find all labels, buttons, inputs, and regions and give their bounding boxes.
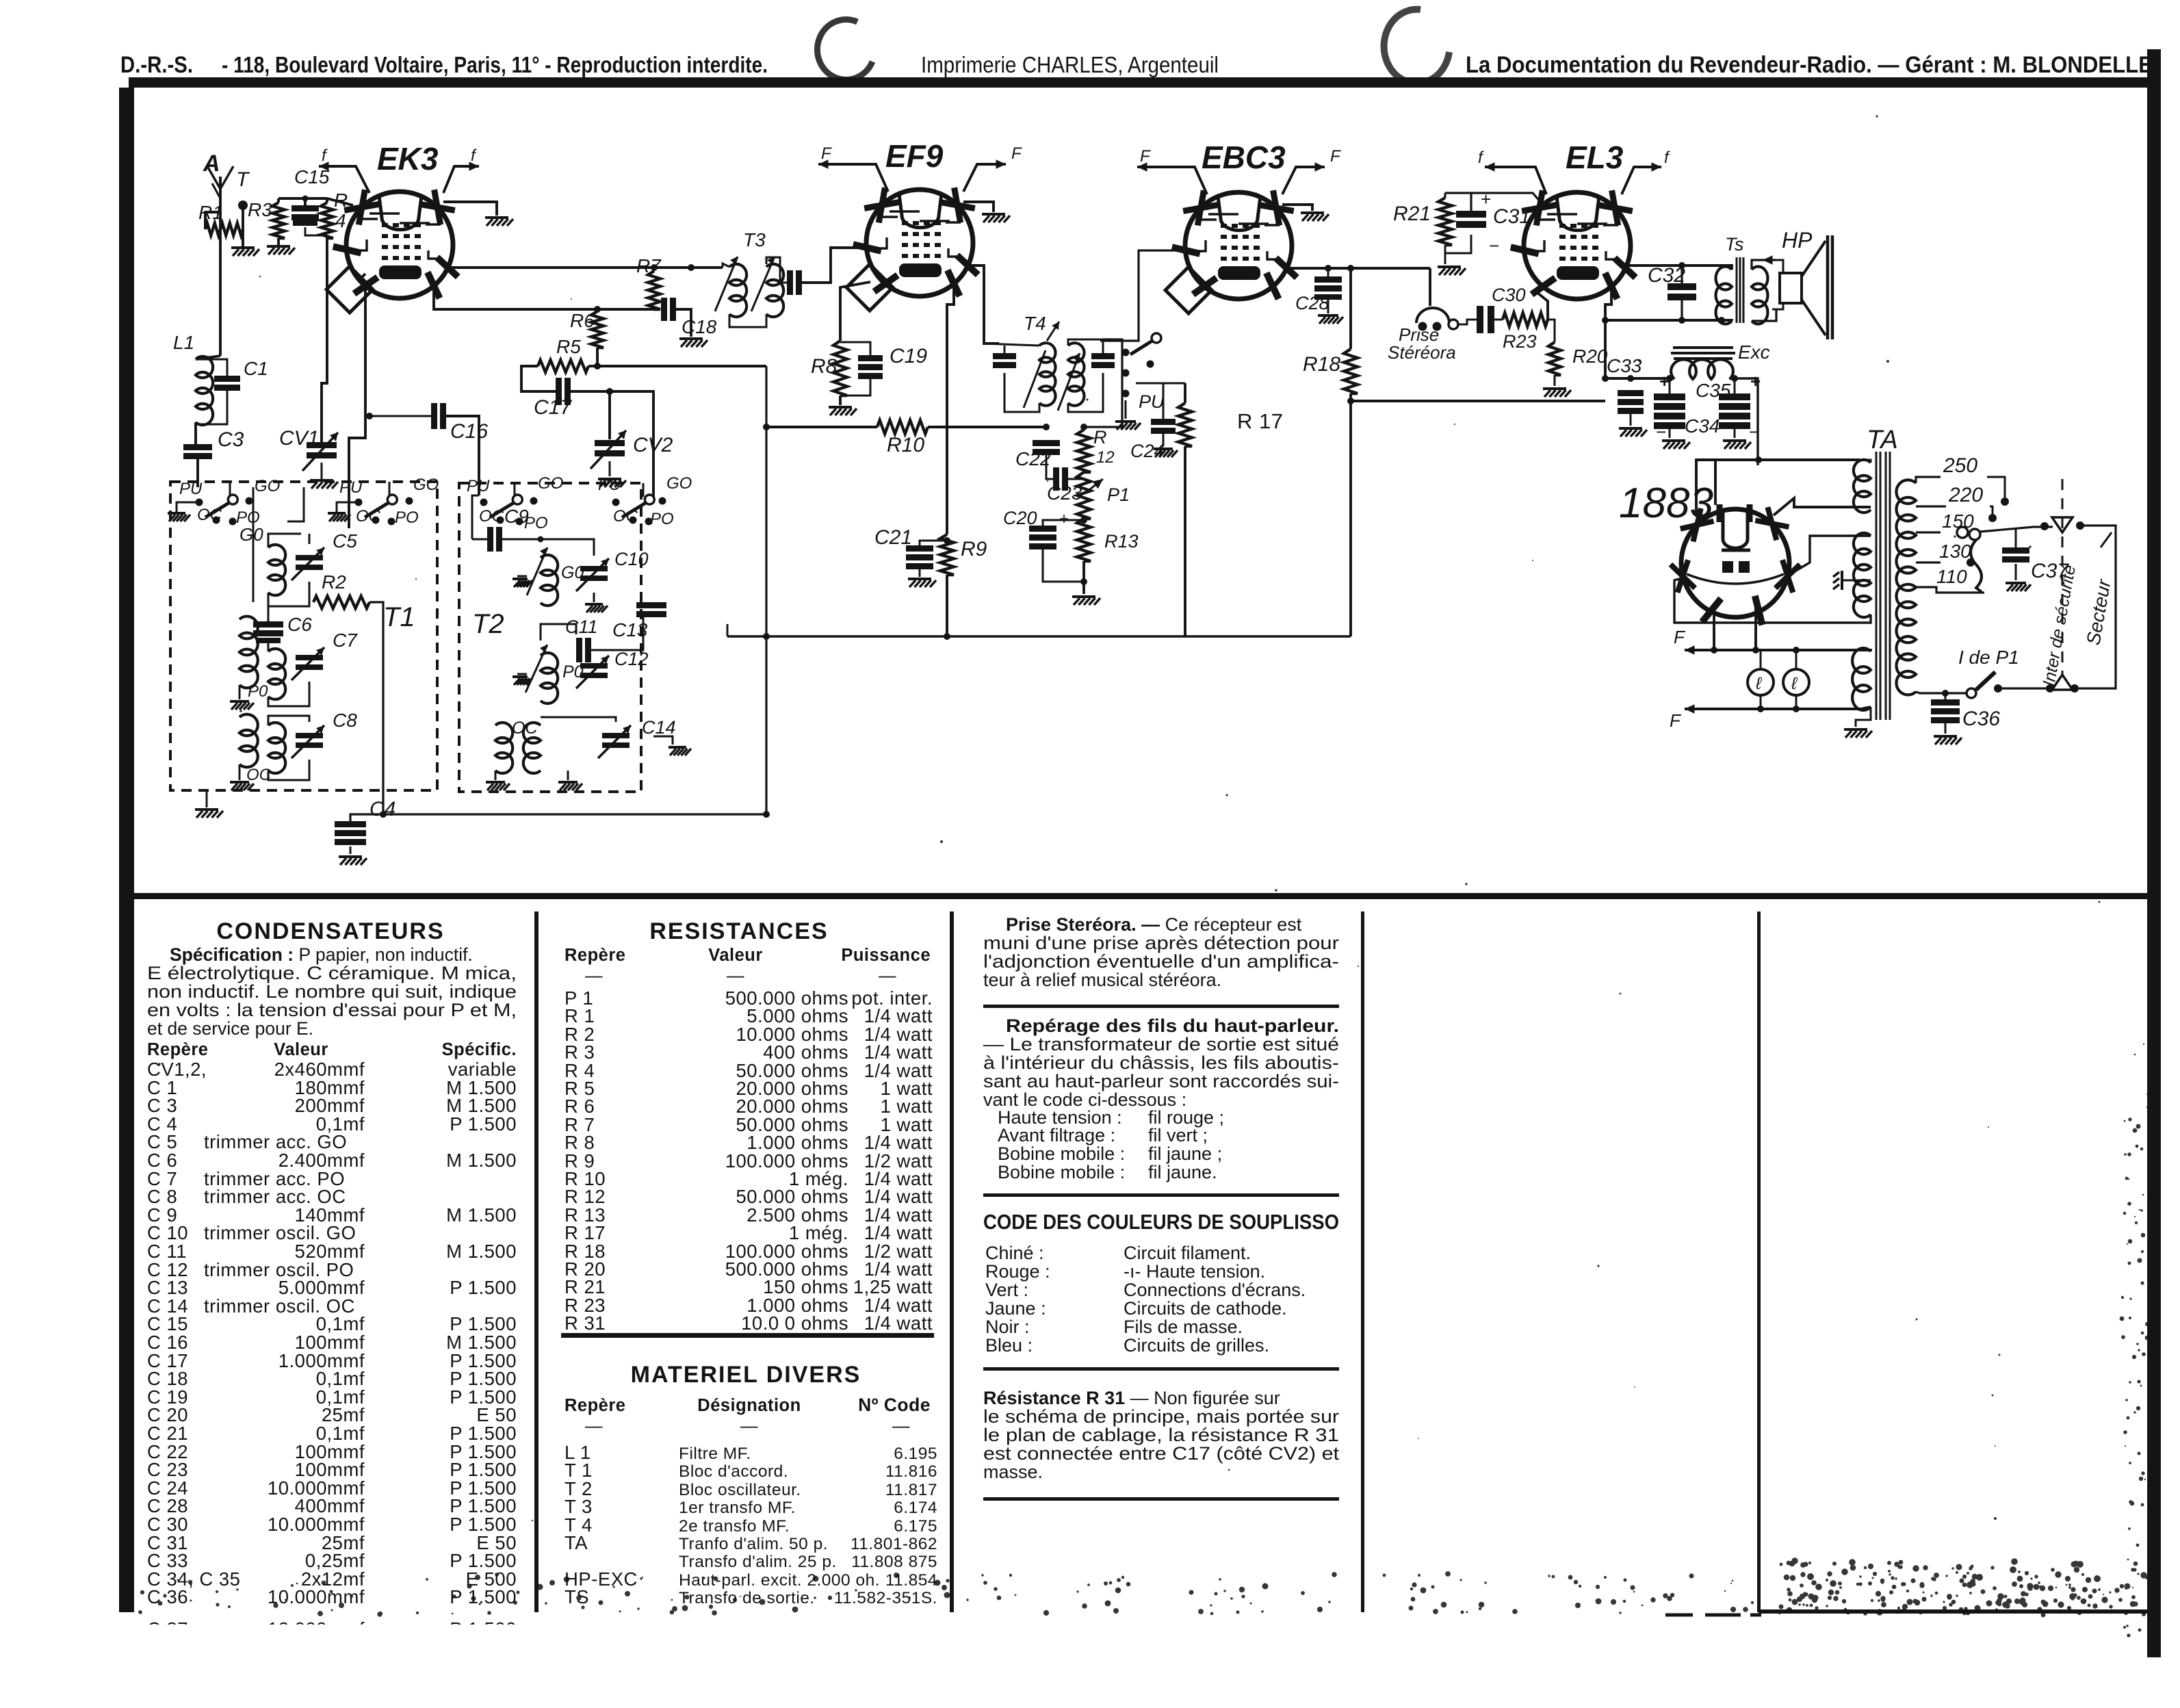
svg-text:C8: C8 [333,710,357,731]
ground under C34 [1669,429,1671,438]
ground right of EBC3 [1301,211,1324,214]
svg-text:PU: PU [467,477,490,495]
svg-text:F: F [1674,627,1686,647]
ground under C18 [679,337,703,340]
svg-text:PO: PO [650,510,674,528]
resistor R2 [313,596,369,608]
svg-text:CONDENSATEURS: CONDENSATEURS [216,918,444,944]
svg-text:Circuits de cathode.: Circuits de cathode. [1124,1298,1287,1319]
column separator 2 [950,911,954,1612]
transformer Ts secondary [1752,266,1767,324]
svg-text:C7: C7 [333,630,358,651]
svg-text:—: — [585,1416,603,1436]
wire T1 vertical feeds [252,487,255,602]
capacitor C20 [1029,526,1056,532]
prise stereora connector [1429,268,1431,306]
svg-text:Circuits de grilles.: Circuits de grilles. [1124,1335,1269,1356]
svg-text:C33: C33 [1607,355,1642,376]
ground under T [231,246,255,249]
svg-text:Imprimerie CHARLES, Argenteuil: Imprimerie CHARLES, Argenteuil [921,52,1219,77]
rule after prise stereora [983,1005,1339,1008]
wire R1 to T [242,228,244,231]
svg-text:C11: C11 [565,617,598,637]
svg-text:Bobine mobile :: Bobine mobile : [998,1143,1125,1164]
svg-text:M 1.500: M 1.500 [446,1241,517,1262]
svg-text:Tranfo d'alim. 50 p.: Tranfo d'alim. 50 p. [679,1535,828,1553]
svg-text:Rouge :: Rouge : [985,1261,1050,1282]
svg-text:sant au haut-parleur sont racc: sant au haut-parleur sont raccordés sui- [983,1071,1339,1091]
svg-text:Spécification : P papier, non: Spécification : P papier, non inductif. [170,944,473,965]
svg-text:—: — [727,966,744,985]
resistor R9 [940,534,954,575]
coil GO T1 [268,545,285,595]
TA tap 130 [1916,561,1941,563]
pickup selector PU [1122,349,1130,357]
wire L1 to C3 [194,422,197,444]
transformer Ts core [1737,257,1743,323]
capacitor C32 [1668,283,1696,290]
ground PO coil [239,685,241,699]
TA tap 250 [1916,477,1941,483]
dashed inter line [2062,479,2064,676]
svg-text:RESISTANCES: RESISTANCES [649,918,828,944]
svg-text:C28: C28 [1295,293,1329,313]
resistor R18 [1344,349,1358,393]
wire C4 node to bus [383,813,766,815]
TA tap 220 [1916,505,1946,507]
svg-text:—: — [740,1416,758,1436]
svg-text:−: − [1656,422,1667,442]
wire EBC3 left pin to T4 zone [1100,250,1186,341]
svg-text:C14: C14 [642,717,676,738]
svg-text:11.808 875: 11.808 875 [851,1553,937,1571]
svg-text:E électrolytique. C céramique.: E électrolytique. C céramique. M mica, [147,963,517,983]
tube EBC3 [1172,190,1297,299]
svg-text:EBC3: EBC3 [1202,140,1286,175]
svg-text:C19: C19 [890,345,927,367]
svg-text:R18: R18 [1303,353,1340,376]
capacitor C23 [1053,467,1059,491]
capacitor C9 [487,527,493,552]
grounds below T2 [495,771,497,780]
schematic bottom rule [134,893,2147,899]
wire R13 to ground [1082,561,1085,594]
svg-text:11.801-862: 11.801-862 [851,1535,937,1553]
svg-text:C 36: C 36 [147,1586,188,1607]
svg-text:Nº Code: Nº Code [858,1395,931,1415]
wire R4 down to CV1 and C16 [322,235,327,442]
svg-text:L1: L1 [173,332,194,353]
svg-text:R3: R3 [248,199,272,220]
svg-text:P 1.500: P 1.500 [450,1586,517,1607]
svg-text:PU: PU [179,480,203,498]
wire EK3 bottom to oscillator [349,286,365,528]
svg-text:Valeur: Valeur [274,1040,328,1059]
svg-text:−: − [1749,422,1760,442]
ground under CV2 [609,461,611,476]
svg-text:−: − [1489,235,1500,256]
right page border [2147,49,2161,1657]
wire C22 C23 [1046,454,1053,479]
svg-text:Connections d'écrans.: Connections d'écrans. [1124,1280,1306,1300]
block T1 dashed box [170,482,437,790]
svg-text:R10: R10 [887,434,924,456]
svg-text:C15: C15 [294,166,330,187]
svg-text:EF9: EF9 [885,138,944,174]
tube EK3 [333,190,458,298]
resistor R13 [1077,519,1091,561]
svg-text:Bleu :: Bleu : [985,1335,1033,1356]
svg-text:Bloc oscillateur.: Bloc oscillateur. [679,1481,801,1499]
svg-text:10.0 0 ohms: 10.0 0 ohms [741,1312,848,1334]
TA tap 150 [1916,531,1941,533]
capacitor C28 [1314,276,1342,283]
svg-text:I de P1: I de P1 [1958,647,2019,668]
header rule [129,77,2158,88]
capacitor C31 [1456,211,1486,218]
svg-text:HP: HP [1782,228,1813,253]
wire EL3 anode to Ts [1625,266,1732,270]
svg-text:C20: C20 [1003,508,1037,528]
TA secondary winding [1896,480,1916,695]
column separator 3 [1361,911,1364,1612]
wire EF9 to ground right [963,202,994,212]
svg-text:Prise Steréora. — Ce récepteur: Prise Steréora. — Ce récepteur est [1006,914,1302,935]
svg-text:C32: C32 [1648,264,1685,287]
capacitor C16 [431,403,437,429]
wire T3 to EF9 grid [802,248,868,283]
svg-text:EL3: EL3 [1566,140,1624,175]
wire secteur right side [2079,526,2116,688]
ground stub PO T2 [517,673,527,675]
wire C18 to ground [676,309,691,337]
svg-text:R: R [1093,427,1107,448]
svg-text:C10: C10 [614,549,649,569]
oscillator coil GO T2 [541,555,558,606]
ground under C35 [1734,429,1736,438]
capacitor C37 [2002,547,2029,554]
wire R6 to R5 [596,348,599,366]
svg-text:-ı- Haute tension.: -ı- Haute tension. [1124,1261,1265,1282]
svg-text:C12: C12 [614,649,649,669]
svg-text:GO: GO [413,476,439,494]
resistor R8 [833,341,847,396]
svg-text:R5: R5 [556,336,581,357]
svg-text:F: F [821,144,832,163]
column separator 4 [1757,911,1761,1612]
wire T3 tops [723,263,729,268]
svg-text:+: + [1750,371,1761,391]
svg-text:T1: T1 [383,602,415,632]
svg-text:Ts: Ts [1725,234,1744,255]
svg-text:F: F [1670,710,1682,731]
wire 1883 anode bus top [1696,460,1860,517]
svg-text:11.816: 11.816 [885,1462,937,1481]
wire EF9 bottom pin down to R9 [947,286,954,534]
svg-text:11.817: 11.817 [885,1481,937,1499]
inductor L1 [196,357,213,425]
resistances underline [561,1333,934,1338]
rule after reperage [983,1193,1339,1197]
svg-text:Spécific.: Spécific. [442,1040,517,1059]
svg-text:C5: C5 [333,530,357,552]
svg-text:MATERIEL DIVERS: MATERIEL DIVERS [631,1362,861,1388]
wire R8 top to EF9 [840,282,870,311]
svg-text:fil vert ;: fil vert ; [1148,1125,1208,1146]
wire R10 left to T2 line [766,426,877,428]
svg-text:muni d'une prise après détecti: muni d'une prise après détection pour [983,933,1339,953]
svg-text:l'adjonction éventuelle d'un a: l'adjonction éventuelle d'un amplifica- [983,951,1339,972]
node wire R3 C15 R4 top [278,197,327,200]
filament wires F [1685,649,1702,651]
wire antenna down to L1 [219,212,222,356]
left page border [119,88,134,1612]
svg-text:Repère: Repère [565,1396,625,1415]
capacitor C22 [1033,440,1060,446]
trimmer C10 [580,566,608,571]
svg-text:Avant filtrage :: Avant filtrage : [998,1125,1115,1146]
svg-text:Stéréora: Stéréora [1388,342,1456,363]
wire R18 bottom bus [1349,393,1352,636]
svg-text:Repère: Repère [147,1040,208,1059]
selector squiggle [1971,540,1982,592]
grid-cap diamond EK3 [326,266,373,313]
resistor R5 [538,360,588,372]
svg-text:le plan de cablage, la résista: le plan de cablage, la résistance R 31 [983,1425,1339,1445]
svg-text:130: 130 [1939,541,1971,562]
wire Exc right down to TA [1729,378,1758,465]
resistor R1 [205,223,243,235]
svg-text:R6: R6 [570,310,595,331]
svg-text:Exc: Exc [1738,341,1770,363]
TA mid winding ground tap [1843,580,1871,582]
wire grid line to EK3 [327,198,353,205]
svg-text:6.174: 6.174 [894,1499,937,1517]
wires T4 [984,344,1039,346]
tube EL3 [1511,190,1636,299]
svg-text:12: 12 [1096,448,1115,467]
wire R5 left to C17 [521,366,556,391]
svg-text:OC: OC [512,719,538,738]
svg-text:Résistance R 31 — Non figur: Résistance R 31 — Non figurée sur [983,1388,1280,1408]
wire R9 to bus [946,575,948,636]
svg-text:Désignation: Désignation [697,1396,801,1415]
svg-text:C21: C21 [874,526,912,549]
ground under C21 [919,569,921,577]
wire TA mid bottom under 1883 [1674,578,1871,623]
svg-text:Transfo d'alim. 25 p.: Transfo d'alim. 25 p. [679,1553,837,1571]
ground under R8 [839,396,842,405]
capacitor C33 [1618,390,1644,396]
svg-text:et de service pour E.: et de service pour E. [147,1018,313,1039]
bottom right rule [1759,1609,2147,1614]
wire R21 C31 top to EL3 grid [1445,193,1471,211]
capacitor C6 [253,621,283,627]
svg-text:—: — [892,1416,910,1436]
svg-text:R20: R20 [1572,346,1608,367]
svg-text:110: 110 [1936,566,1967,587]
block T2 dashed box [459,483,641,792]
svg-text:— Le transformateur de sortie: — Le transformateur de sortie est situé [983,1034,1339,1054]
svg-text:TA: TA [565,1532,588,1553]
svg-text:P 1.500: P 1.500 [450,1113,517,1135]
wire EL3 cathode down to C33 Exc [1605,320,1674,378]
svg-text:GO: GO [538,474,563,493]
resistor R21 [1438,198,1452,245]
svg-text:6.195: 6.195 [894,1445,937,1463]
ground under C10 [593,593,595,602]
wire R5 junction to MF line [597,365,766,367]
svg-text:Valeur: Valeur [708,946,763,965]
svg-text:GO: GO [255,477,280,495]
table condensateurs cut row [147,1618,517,1640]
wire R18 to EL3 cathode bus [1351,400,1605,402]
tube 1883 [1670,504,1800,625]
capacitor C36 [1931,699,1960,706]
svg-text:C31: C31 [1493,205,1531,228]
resistor R17 [1178,403,1192,446]
svg-text:C9: C9 [504,506,529,527]
trimmer C14 [602,733,630,738]
ground under R21 [1444,253,1446,264]
capacitor C24 [1151,419,1176,425]
ground under C37 [2015,564,2017,580]
wire EL3 cathode bus lower [1605,289,1732,321]
wire C3 down to T1 [196,459,199,487]
svg-text:M 1.500: M 1.500 [446,1150,517,1171]
svg-text:2e transfo MF.: 2e transfo MF. [679,1517,790,1536]
coil OC T1 secondary [268,723,285,773]
svg-text:Circuit filament.: Circuit filament. [1124,1243,1251,1263]
oscillator coil PO T2 [541,653,558,703]
svg-text:R 17: R 17 [1237,409,1283,433]
svg-text:G0: G0 [239,524,263,545]
tube EF9 [853,187,978,296]
svg-text:C6: C6 [287,614,312,635]
wire T2 risers [472,495,479,539]
svg-text:C30: C30 [1492,285,1526,305]
choke Exc coil [1671,359,1733,379]
resistor R4 [321,203,333,238]
svg-text:C17: C17 [534,396,572,419]
choke Exc laminations [1671,348,1735,359]
wire EBC3 to ground right [1282,205,1312,211]
svg-text:Bobine mobile :: Bobine mobile : [998,1162,1125,1182]
svg-text:R 31: R 31 [565,1312,606,1334]
wire R23 to EL3 grid [1537,293,1548,320]
filament arrows EBC3 [1137,166,1158,168]
capacitor C4 [350,814,383,821]
transformer Ts primary [1716,266,1732,324]
svg-text:PU: PU [339,478,363,497]
svg-text:La Documentation du Revendeur-: La Documentation du Revendeur-Radio. — G… [1466,52,2153,78]
svg-text:T4: T4 [1024,313,1046,334]
svg-text:1er transfo MF.: 1er transfo MF. [679,1499,796,1517]
svg-text:Vert :: Vert : [985,1280,1028,1300]
wire EK3 anode to T3 [447,266,723,269]
capacitor C3 [183,444,212,450]
wire C17 right to CV2 and T2 [571,391,610,439]
svg-text:10.000mmf: 10.000mmf [268,1586,365,1607]
wire R21 C31 bottom [1445,235,1471,253]
wire C16 left [369,415,431,417]
filament arrows EL3 [1485,166,1504,168]
capacitor C1 [214,376,240,382]
rule after R31 note [983,1497,1339,1501]
ground under C33 [1630,414,1632,426]
svg-text:R13: R13 [1104,531,1139,552]
capacitor C15 [291,205,319,211]
svg-text:R23: R23 [1503,331,1537,352]
dial lamps [1760,650,1762,669]
resistor R12 [1077,430,1091,472]
filament arrows EF9 [818,163,839,165]
svg-text:M 1.500: M 1.500 [446,1204,517,1226]
svg-text:à l'intérieur du châssis, les: à l'intérieur du châssis, les fils about… [983,1052,1339,1073]
wire selector output [1980,527,2053,532]
ground stub GO T2 [517,575,527,578]
capacitor T3 grid [787,270,793,295]
svg-text:11.854: 11.854 [885,1571,937,1590]
TA tap 110 [1916,587,1984,593]
svg-text:Transfo de sortie.: Transfo de sortie. [679,1589,815,1607]
svg-text:- 118, Boulevard Voltaire, Par: - 118, Boulevard Voltaire, Paris, 11° - … [222,52,768,77]
triangle top secteur [2052,517,2073,532]
svg-text:250: 250 [1943,454,1977,477]
transformer TA core [1876,452,1890,720]
svg-text:R2: R2 [322,571,346,593]
rule after code couleurs [983,1367,1339,1371]
wire grid node EBC3 [1136,383,1185,385]
capacitor C19 [858,355,883,361]
svg-text:GO: GO [666,474,692,493]
antenna A [219,177,222,212]
ground under C4 [350,846,352,854]
svg-text:est connectée entre C17 (côté: est connectée entre C17 (côté CV2) et [983,1443,1340,1464]
svg-text:PU: PU [1139,391,1165,412]
TA filament winding 1883 [1852,648,1871,710]
svg-text:CV2: CV2 [633,434,673,456]
ground under CV1 [321,463,323,479]
variable capacitor CV1 [307,442,337,448]
svg-text:220: 220 [1948,484,1983,506]
resistor R3 [272,203,285,238]
svg-text:F: F [1011,144,1022,163]
capacitor C35 electrolytic [1719,393,1750,400]
svg-text:ℓ: ℓ [1791,674,1798,693]
switch I de P1 [1916,692,1967,693]
svg-text:PO: PO [395,508,419,527]
wire EK3 screen to ground right [443,202,497,216]
svg-text:P0: P0 [248,682,268,701]
capacitor C21 [906,545,933,552]
triangle bottom secteur [2052,675,2073,690]
svg-text:teur à relief musical stéréor: teur à relief musical stéréora. [983,970,1221,990]
svg-text:C34: C34 [1685,415,1720,437]
wire T2 bottom bus to C4 bus [765,366,767,814]
filament arrows EK3 [319,165,339,167]
svg-text:C35: C35 [1696,380,1731,401]
svg-text:C3: C3 [218,428,244,451]
svg-text:A: A [203,151,220,177]
wire 1883 filament pin drops [1713,606,1715,650]
svg-text:R9: R9 [961,538,987,560]
ground under R13 [1072,595,1095,598]
wire R10 right to C22 node [928,426,1046,428]
svg-text:F: F [1330,147,1341,166]
ground right of T2 [653,736,673,745]
svg-text:R21: R21 [1393,203,1431,225]
